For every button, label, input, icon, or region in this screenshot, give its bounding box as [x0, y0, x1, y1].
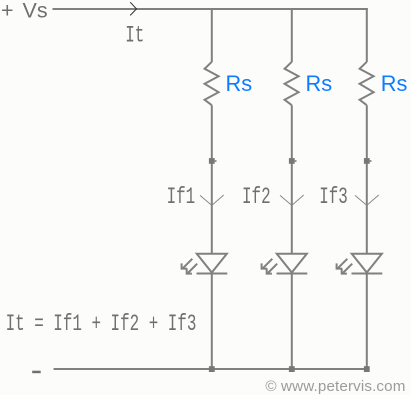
svg-text:It: It: [125, 22, 144, 49]
junction node on branch 3: [364, 158, 370, 164]
junction dot: branch 2 to bottom rail: [289, 366, 295, 372]
resistor Rs (branch 3): [360, 62, 374, 105]
svg-text:It = If1 + If2 + If3: It = If1 + If2 + If3: [6, 310, 197, 337]
junction dot: branch 1 to bottom rail: [209, 366, 215, 372]
wire: branch 3 lower segment (LED to bottom rail): [366, 274, 368, 370]
LED D2: [262, 254, 308, 274]
junction node on branch 1: [209, 158, 215, 164]
wire: top supply rail from +Vs to branch 3: [53, 8, 368, 10]
svg-text:Rs: Rs: [226, 71, 253, 96]
svg-text:Rs: Rs: [381, 71, 408, 96]
svg-text:If1: If1: [167, 183, 196, 210]
current arrow If3 (V arrowhead on branch 3 wire): [355, 195, 379, 205]
svg-text:If3: If3: [319, 183, 348, 210]
svg-text:If2: If2: [242, 183, 271, 210]
wire: branch 2 lower segment (LED to bottom rail): [291, 274, 293, 370]
svg-text:Vs: Vs: [23, 0, 48, 23]
current arrow If1 (V arrowhead on branch 1 wire): [200, 195, 224, 205]
svg-text:Rs: Rs: [306, 71, 333, 96]
current arrow If2 (V arrowhead on branch 2 wire): [280, 195, 304, 205]
svg-text:+: +: [1, 0, 14, 23]
wire: bottom return rail: [54, 368, 367, 370]
wire: branch 2 upper segment (top rail to resistor): [291, 8, 293, 62]
resistor Rs (branch 1): [205, 62, 219, 105]
junction node on branch 2: [289, 158, 295, 164]
resistor Rs (branch 2): [285, 62, 299, 105]
wire: branch 3 upper segment (top rail corner to resistor): [366, 8, 368, 62]
node +Vs (positive supply terminal label): [1, 0, 48, 23]
LED D3: [337, 254, 383, 274]
node - (negative supply terminal label): [32, 371, 41, 374]
wire: branch 3 middle segment (resistor to LED): [366, 105, 368, 254]
arrow: It current direction chevron on top rail: [130, 2, 136, 15]
wire: branch 2 middle segment (resistor to LED): [291, 105, 293, 254]
wire: branch 1 upper segment (top rail to resistor): [211, 8, 213, 62]
wire: branch 1 lower segment (LED to bottom rail): [211, 274, 213, 370]
svg-text:© www.petervis.com: © www.petervis.com: [265, 378, 405, 395]
junction dot: branch 3 to bottom rail: [364, 366, 370, 372]
wire: branch 1 middle segment (resistor to LED): [211, 105, 213, 254]
LED D1: [182, 254, 228, 274]
